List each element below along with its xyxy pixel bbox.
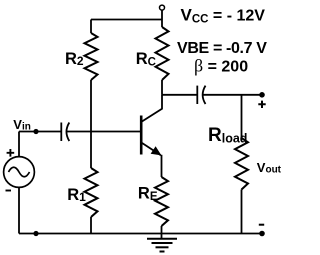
- node dot output + terminal: [259, 92, 265, 98]
- source + polarity: [7, 149, 15, 157]
- output + polarity: [258, 101, 265, 108]
- svg-text:R1: R1: [67, 186, 86, 204]
- svg-text:VBE = -0.7 V: VBE = -0.7 V: [177, 40, 267, 57]
- source - polarity: [6, 190, 12, 192]
- output - polarity: [259, 224, 264, 226]
- resistor R2: [85, 33, 98, 80]
- wire: Rload bottom lead: [241, 190, 243, 234]
- wire: RE bottom to ground rail: [161, 226, 163, 239]
- wire: emitter down to RE: [161, 155, 163, 177]
- wire: output cap to + terminal: [203, 94, 263, 96]
- AC source sine wave: [9, 167, 30, 177]
- svg-text:RC: RC: [136, 50, 156, 68]
- wire: cap to transistor base: [66, 131, 141, 133]
- Vcc terminal (open circle): [160, 5, 165, 10]
- transistor Q1 base bar: [140, 116, 143, 155]
- wire: R2 bottom lead down through base node to R1 top: [90, 80, 92, 168]
- wire: source bottom to ground rail: [18, 187, 20, 233]
- wire: Rload top lead: [241, 95, 243, 138]
- svg-text:β = 200: β = 200: [194, 56, 248, 76]
- wire: input node to coupling cap: [19, 131, 61, 133]
- wire: top rail from R2 top to Vcc terminal: [91, 19, 162, 21]
- svg-text:Vout: Vout: [257, 160, 282, 176]
- AC source vin circle: [4, 157, 35, 188]
- capacitor C-out curved plate: [203, 86, 206, 104]
- wire: RC bottom lead to collector node: [161, 80, 163, 95]
- wire: vin node down to source: [18, 132, 20, 157]
- resistor R1: [85, 168, 98, 217]
- resistor RE: [155, 177, 168, 226]
- capacitor C-in curved plate: [66, 123, 69, 142]
- resistor Rload: [235, 138, 248, 190]
- transistor Q1 emitter lead with arrow: [142, 143, 161, 156]
- svg-text:VCC = - 12V: VCC = - 12V: [181, 6, 266, 26]
- wire: bottom ground rail: [19, 233, 262, 235]
- ground symbol: [147, 239, 177, 252]
- capacitor C-out flat plate: [196, 86, 198, 104]
- transistor Q1 collector lead: [142, 95, 163, 122]
- svg-text:R2: R2: [65, 50, 84, 68]
- resistor RC: [156, 27, 169, 80]
- node dot bottom-left junction: [33, 231, 38, 236]
- wire: collector node to output cap: [162, 94, 197, 96]
- capacitor C-in flat plate: [60, 123, 62, 142]
- wire: R1 bottom lead to ground rail: [90, 217, 92, 234]
- wire: R2 top lead: [90, 20, 92, 34]
- svg-text:Vin: Vin: [13, 117, 31, 133]
- node dot output - terminal: [259, 231, 265, 237]
- node dot vin: [33, 129, 38, 134]
- wire: Vcc terminal down to RC top: [161, 10, 163, 27]
